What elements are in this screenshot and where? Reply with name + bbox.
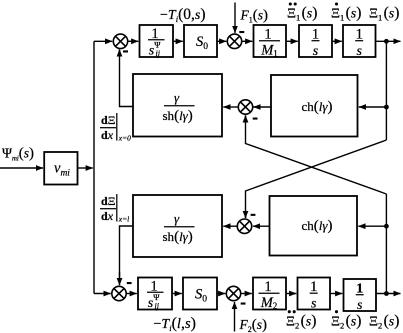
wire 1/M1 to integrator 1 (286, 40, 298, 42)
label -T_i(l,s) (154, 315, 196, 333)
wire rail1 down from Xi1 node (385, 41, 387, 140)
block text B6: gamma over sh(l gamma) (163, 90, 195, 124)
block text B5: 1 over s (355, 26, 363, 59)
svg-text:Ξ2(s): Ξ2(s) (286, 313, 316, 331)
wire 1/s_ij bottom to S0 bottom (172, 293, 182, 295)
svg-text:ch(lγ): ch(lγ) (302, 218, 333, 234)
block text B1: 1 over s_ij^Psi (148, 26, 165, 59)
block text B14: 1 over s (310, 279, 318, 312)
label Psi_mi(s) input (2, 146, 34, 163)
wire Psi input to v_mi (0, 167, 43, 169)
svg-text:Ξ1(s): Ξ1(s) (331, 5, 361, 23)
block B10 v_mi (44, 152, 77, 185)
wire S1 to block 1/s_ij (128, 40, 139, 42)
svg-text:Ψ: Ψ (153, 292, 160, 302)
label F1(s) (240, 8, 269, 25)
svg-text:sh(lγ): sh(lγ) (163, 108, 193, 124)
block text B15: 1 over s (356, 281, 364, 313)
minus sign at S4 (251, 214, 256, 216)
node dot ch2 branch (384, 224, 389, 229)
wire integrator 1 to integrator 2 (332, 40, 342, 42)
svg-text:1: 1 (355, 26, 363, 42)
wire S3 to sh1 block (223, 106, 238, 108)
node dot bottom right (384, 291, 389, 296)
minus sign at S3 (253, 118, 258, 120)
svg-text:γ: γ (174, 90, 180, 105)
svg-text:dΞ: dΞ (101, 194, 116, 208)
block text B2: S0 (196, 34, 208, 52)
svg-text:sh(lγ): sh(lγ) (163, 229, 193, 245)
svg-text:ij: ij (156, 49, 161, 58)
block B11 1/s_ij bottom (138, 278, 172, 310)
block B3 1/M1 (254, 25, 287, 57)
svg-text:s: s (311, 297, 317, 312)
node dot top right (384, 39, 389, 44)
svg-text:Ξ2(s): Ξ2(s) (331, 313, 361, 331)
wire bus to summer S1 (94, 40, 112, 42)
block text B13: 1 over M2 (259, 279, 280, 311)
wire F2 input arrow (234, 302, 236, 332)
block text B8: gamma over sh(l gamma) (163, 211, 195, 245)
block B12 S0 bottom (183, 278, 217, 310)
wire rail1 node to ch1 input (359, 106, 387, 108)
wire rail2 node to ch2 input (358, 225, 386, 227)
svg-text:s: s (313, 44, 319, 59)
label Xi2 double dot (s) (286, 310, 316, 330)
block text B3: 1 over M1 (259, 26, 280, 58)
svg-text:F2(s): F2(s) (239, 317, 268, 333)
svg-text:1: 1 (264, 279, 272, 295)
wire sh1 output to summer S1 minus input (120, 50, 134, 107)
minus sign at S2 (239, 31, 244, 33)
svg-text:x=l: x=l (118, 215, 129, 224)
svg-text:Ξ1(s): Ξ1(s) (287, 5, 317, 23)
svg-text:1: 1 (264, 26, 272, 42)
svg-text:1: 1 (310, 279, 318, 295)
block text B4: 1 over s (312, 26, 320, 59)
wire S0 bottom to summer S6 (217, 293, 225, 295)
label Xi1 dot (s) (331, 2, 361, 22)
block text B12: S0 bottom (195, 287, 207, 305)
svg-text:F1(s): F1(s) (240, 8, 269, 25)
svg-text:ch(lγ): ch(lγ) (302, 99, 333, 115)
label dXi/dx at x=0 (100, 113, 131, 143)
block B8 gamma/sh(l gamma) row2 (133, 195, 222, 257)
wire sh2 output to summer S5 minus input (120, 226, 134, 279)
wire S4 to sh2 block (223, 225, 237, 227)
svg-text:1: 1 (312, 26, 320, 42)
block text B10: v_mi (54, 161, 70, 179)
block B6 gamma/sh(l gamma) row1 (133, 74, 222, 137)
label dXi/dx at x=l (100, 194, 129, 224)
svg-text:−Ti(0,s): −Ti(0,s) (160, 6, 206, 24)
wire S0 to summer S2 (217, 40, 226, 42)
block B15 integrator 1/s (344, 279, 377, 311)
wire integrator 3 to integrator 4 (330, 293, 342, 295)
block B1 1/s_ij top (140, 25, 174, 57)
label Xi2 (s) (369, 313, 399, 331)
label Xi1 double dot (s) (287, 2, 317, 22)
svg-text:−Ti(l,s): −Ti(l,s) (154, 315, 196, 333)
block B7 ch(l gamma) row1 (271, 75, 358, 137)
wire S5 to block 1/s_ij bottom (126, 293, 137, 295)
wire bus to summer S5 (94, 293, 111, 295)
block text B9: ch(l gamma) (302, 218, 333, 234)
svg-text:dx: dx (101, 128, 114, 142)
wire ch2 output to summer S4 (253, 225, 270, 227)
block B14 integrator 1/s (298, 278, 331, 310)
wire F1 input arrow (234, 3, 236, 34)
summing junction S1 (113, 34, 127, 48)
svg-text:Ψmi(s): Ψmi(s) (2, 146, 34, 163)
svg-text:s: s (356, 44, 362, 59)
svg-text:1: 1 (356, 281, 363, 296)
label -T_i(0,s) (160, 6, 206, 24)
wire 1/M2 to integrator 3 (286, 293, 296, 295)
wire 1/s_ij to S0 top (173, 40, 183, 42)
block text B7: ch(l gamma) (302, 99, 333, 115)
label Xi1 (s) (369, 5, 399, 23)
wire S6 to block 1/M2 (241, 293, 252, 295)
wire Xi2 cross diagonal up to summer S3 (246, 116, 387, 195)
wire ch1 output to summer S3 (253, 106, 271, 108)
summing junction S5 (112, 286, 126, 300)
block B13 1/M2 (253, 278, 286, 310)
svg-text:x=0: x=0 (118, 134, 131, 143)
svg-text:dΞ: dΞ (101, 113, 116, 127)
minus sign at S5 (127, 282, 132, 284)
summing junction S4 (237, 219, 251, 233)
block B9 ch(l gamma) row2 (270, 196, 358, 256)
svg-text:dx: dx (101, 209, 114, 223)
svg-text:Ξ1(s): Ξ1(s) (369, 5, 399, 23)
block B2 S0 top (184, 25, 217, 57)
wire top output Xi1 (376, 40, 401, 42)
label Xi2 dot (s) (331, 310, 361, 330)
node dot ch1 branch (384, 105, 389, 110)
wire vertical bus (93, 41, 95, 293)
summing junction S6 (226, 286, 240, 300)
summing junction S3 (238, 100, 252, 114)
minus sign at S1 (123, 50, 128, 52)
wire S2 to block 1/M1 (242, 40, 253, 42)
summing junction S2 (227, 34, 241, 48)
svg-text:ij: ij (155, 302, 160, 311)
wire Xi1 cross diagonal down to summer S4 (246, 140, 387, 218)
minus sign at S6 (241, 303, 246, 305)
block B5 integrator 1/s (343, 25, 376, 57)
svg-text:γ: γ (174, 211, 180, 226)
wire bottom output Xi2 (376, 293, 401, 295)
label F2(s) (239, 317, 268, 333)
wire v_mi output to bus (78, 167, 93, 169)
svg-text:Ψ: Ψ (154, 39, 161, 49)
block B4 integrator 1/s (299, 25, 332, 57)
wire rail2 up from Xi2 node (385, 194, 387, 294)
svg-text:s: s (357, 298, 363, 313)
block text B11: 1 over s_ij^Psi bottom (147, 278, 164, 311)
svg-text:Ξ2(s): Ξ2(s) (369, 313, 399, 331)
